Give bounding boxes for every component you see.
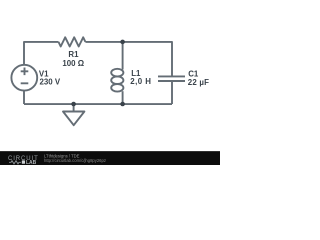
node junction dot ground tap (71, 102, 76, 107)
wire resistor to top-right corner (85, 42, 172, 76)
svg-text:LAB: LAB (26, 160, 37, 165)
svg-text:230 V: 230 V (40, 77, 61, 86)
wire inductor bottom (122, 91, 124, 104)
resistor R1 (59, 37, 86, 46)
wire top-left corner to resistor (24, 42, 59, 65)
node junction dot top (inductor tap) (120, 40, 125, 45)
svg-text:http://circuitlab.com/c/jhg8py: http://circuitlab.com/c/jhg8py26pz (44, 158, 106, 163)
svg-text:100 Ω: 100 Ω (62, 59, 84, 68)
ground (63, 104, 84, 125)
svg-text:22 µF: 22 µF (188, 78, 209, 87)
footer logo bolt box (22, 160, 25, 163)
svg-text:2,0 H: 2,0 H (130, 77, 151, 86)
wire below source to bottom rail (23, 91, 25, 104)
wire inductor branch top (122, 42, 124, 70)
svg-text:R1: R1 (68, 50, 79, 59)
voltage source V1 (11, 65, 37, 91)
inductor L1 (111, 69, 123, 77)
footer logo resistor zigzag (9, 161, 21, 164)
node junction dot bottom (inductor tap) (120, 102, 125, 107)
capacitor C1 plates (158, 76, 185, 81)
footer black band (0, 151, 220, 165)
wire capacitor bottom to rail (171, 81, 173, 104)
wire bottom rail (24, 103, 172, 105)
